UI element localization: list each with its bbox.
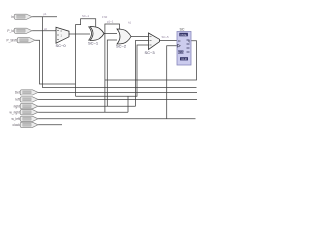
svg-text:SC~1: SC~1	[82, 14, 90, 18]
svg-text:CLR: CLR	[181, 57, 187, 61]
svg-text:h1: h1	[128, 21, 132, 25]
svg-text:SC~1: SC~1	[88, 41, 99, 46]
svg-text:P_ld: P_ld	[7, 29, 14, 33]
svg-text:Det: Det	[15, 91, 20, 95]
svg-text:right: right	[14, 104, 20, 108]
svg-text:P_Shift: P_Shift	[7, 38, 17, 42]
svg-text:p1: p1	[44, 12, 48, 16]
svg-text:In: In	[11, 15, 14, 19]
svg-text:ENA: ENA	[178, 50, 184, 54]
svg-text:clock: clock	[13, 123, 21, 127]
svg-text:left: left	[16, 98, 20, 102]
svg-text:p1~1: p1~1	[107, 20, 114, 24]
svg-text:w_right: w_right	[10, 110, 20, 114]
svg-text:SC~5: SC~5	[162, 35, 170, 39]
svg-text:SC~0: SC~0	[56, 43, 67, 48]
svg-text:w_left: w_left	[11, 117, 19, 121]
svg-text:PRE: PRE	[181, 33, 187, 37]
svg-text:1'h0: 1'h0	[102, 15, 108, 19]
svg-text:SC~3: SC~3	[145, 50, 156, 55]
svg-text:SC~2: SC~2	[116, 44, 127, 49]
svg-text:s0: s0	[44, 27, 47, 31]
svg-text:SC: SC	[180, 28, 185, 32]
